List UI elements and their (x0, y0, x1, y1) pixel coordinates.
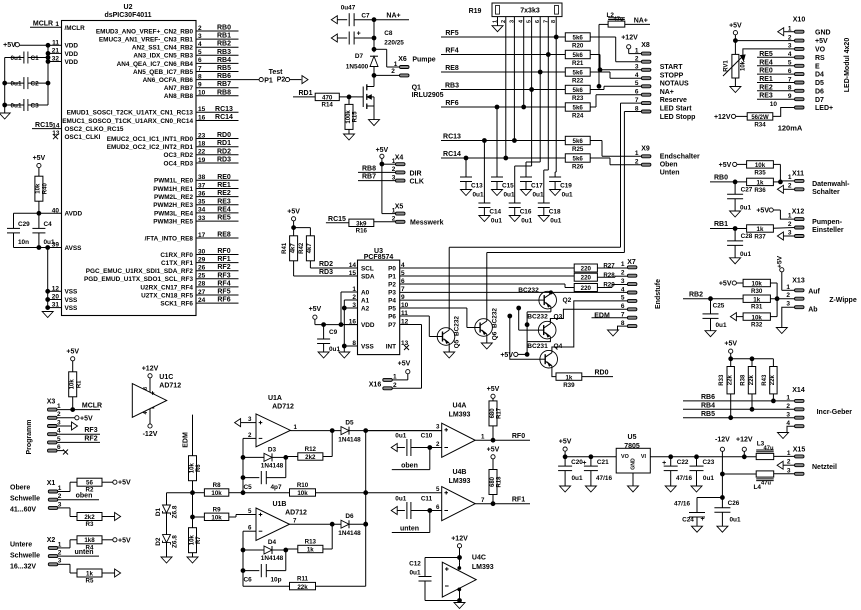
U2 pin 8 RB6 (143, 73, 239, 84)
svg-text:Auf: Auf (808, 289, 820, 296)
svg-text:0u1: 0u1 (10, 103, 21, 110)
resistor R37 1k (747, 225, 795, 241)
svg-text:PWM2H_RE3: PWM2H_RE3 (153, 202, 193, 209)
svg-text:Schwelle: Schwelle (10, 496, 40, 503)
svg-text:RB6: RB6 (701, 394, 715, 401)
svg-text:+: + (700, 516, 704, 523)
svg-text:26: 26 (198, 265, 206, 272)
resistor R30 10k (743, 279, 777, 298)
comparator U4B LM393 (436, 469, 475, 521)
capacitor C14 0u1 (478, 203, 502, 225)
resistor R26 5k6 (565, 154, 590, 171)
svg-text:RB7: RB7 (362, 174, 376, 181)
svg-text:Schwelle: Schwelle (10, 553, 40, 560)
wire R14 to gate (339, 95, 357, 99)
svg-text:RC14: RC14 (443, 151, 461, 158)
X7 pin 1 (621, 261, 637, 269)
svg-text:1: 1 (788, 212, 792, 219)
resistor R43 22k (762, 367, 777, 394)
supply +5V X4 (376, 147, 389, 166)
X11 pin2 arrow (777, 185, 794, 193)
svg-text:1: 1 (57, 403, 61, 410)
U2 pin 30 RF0 (160, 248, 238, 259)
capacitor C23 0u1 (690, 457, 715, 492)
svg-text:RE2: RE2 (759, 84, 773, 91)
resistor R3 2k2 (77, 513, 102, 529)
X7 pin8 ground (608, 326, 628, 336)
svg-text:Z-Wippe: Z-Wippe (829, 297, 857, 304)
svg-text:Pumpe: Pumpe (412, 57, 435, 64)
svg-text:VSS: VSS (65, 305, 79, 312)
wire VDD rail vertical (46, 43, 50, 105)
svg-text:470: 470 (322, 95, 333, 102)
svg-text:Q3: Q3 (554, 314, 563, 321)
X1 pin 2 oben (48, 493, 99, 502)
svg-text:P5: P5 (388, 305, 396, 312)
svg-text:unten: unten (400, 526, 419, 533)
svg-text:3: 3 (58, 558, 62, 565)
X3 pin 6 (48, 444, 69, 455)
svg-text:R18: R18 (497, 476, 503, 488)
resistor R40 10k (35, 176, 49, 201)
ground C1-C3 (0, 113, 10, 119)
svg-text:2: 2 (248, 432, 252, 439)
svg-text:AN6_OCFA_RB6: AN6_OCFA_RB6 (143, 77, 194, 84)
svg-text:2: 2 (786, 292, 790, 299)
svg-text:Q4: Q4 (554, 343, 563, 350)
svg-text:10k: 10k (741, 60, 747, 71)
svg-text:+5V: +5V (559, 439, 572, 446)
connector X5 Messwerk (374, 204, 444, 227)
svg-text:R38: R38 (740, 374, 746, 386)
X2 pin 1 (48, 540, 77, 550)
wire VSS rail (46, 248, 50, 310)
net stub oben (392, 448, 430, 470)
svg-text:STOPP: STOPP (660, 72, 684, 79)
svg-text:VSS: VSS (65, 289, 79, 296)
svg-text:EDM: EDM (594, 313, 610, 320)
X3 pin 1 (48, 403, 103, 412)
X10 pin2 wire (735, 40, 794, 42)
svg-text:+: + (582, 460, 586, 467)
X10 pin10 wire (770, 101, 795, 116)
svg-text:C23: C23 (703, 459, 715, 466)
net row RC13 (441, 134, 565, 143)
svg-text:2: 2 (786, 403, 790, 410)
svg-text:+5V: +5V (118, 480, 131, 487)
ground C9 (318, 352, 329, 358)
svg-text:SCK1_RF6: SCK1_RF6 (160, 301, 193, 308)
supply +5V R30 (719, 280, 743, 287)
svg-text:R3: R3 (86, 521, 94, 528)
svg-text:P4: P4 (388, 297, 396, 304)
supply +5V X16 (398, 361, 411, 380)
svg-text:X7: X7 (627, 259, 636, 266)
svg-text:0u1: 0u1 (715, 322, 726, 329)
svg-text:220: 220 (581, 285, 592, 292)
X10 pin 7 (788, 76, 824, 87)
svg-text:MCLR: MCLR (82, 403, 102, 410)
U2 pin 12 VSS (48, 285, 78, 295)
U2 pin 19 RD3 (164, 157, 239, 168)
resistor R36 1k (747, 178, 774, 194)
svg-text:5k6: 5k6 (573, 70, 584, 77)
svg-text:R28: R28 (603, 272, 615, 279)
svg-text:C11: C11 (421, 495, 433, 502)
diode D4 1N4148 (243, 539, 288, 562)
svg-text:VO: VO (621, 454, 629, 460)
inductor L3 47u (756, 440, 794, 459)
svg-text:R20: R20 (572, 43, 584, 50)
net label RD2 (319, 261, 333, 268)
svg-text:PCF8574: PCF8574 (364, 254, 394, 261)
svg-text:P7: P7 (388, 322, 396, 329)
svg-text:RD3: RD3 (217, 157, 231, 164)
svg-text:1: 1 (58, 485, 62, 492)
net label RD1 (293, 90, 315, 97)
resistor R35 10k (747, 161, 774, 177)
svg-text:RE8: RE8 (445, 65, 459, 72)
svg-text:R40: R40 (43, 183, 49, 195)
ground Q6 emitter (481, 336, 492, 349)
svg-text:PWM1H_RE1: PWM1H_RE1 (153, 186, 193, 193)
svg-text:10k: 10k (36, 183, 42, 194)
svg-text:Z6.8: Z6.8 (172, 505, 179, 518)
svg-text:D2: D2 (155, 537, 162, 546)
wire R2 to +5V (102, 480, 131, 487)
svg-text:C1RX_RF0: C1RX_RF0 (160, 252, 193, 259)
resistor R22 5k6 (565, 68, 590, 85)
svg-text:AN8_RB8: AN8_RB8 (164, 93, 194, 100)
svg-text:RE1: RE1 (759, 76, 773, 83)
svg-text:Oben: Oben (660, 162, 678, 169)
wire jog pin7 to C18 (544, 170, 549, 203)
svg-text:D3: D3 (268, 447, 277, 454)
svg-text:24: 24 (198, 297, 206, 304)
capacitor C3 (5, 99, 48, 111)
svg-text:X1: X1 (47, 480, 56, 487)
svg-text:R42: R42 (299, 242, 305, 254)
svg-text:+12V: +12V (142, 366, 159, 373)
svg-text:AD712: AD712 (272, 404, 294, 411)
svg-text:D5: D5 (345, 420, 354, 427)
capacitor C8 220/25 (331, 30, 404, 46)
wire U1B output (290, 518, 342, 527)
svg-text:RF4: RF4 (445, 48, 458, 55)
wire Q3 collector to X7 pin6 (550, 309, 627, 321)
svg-text:RF3: RF3 (84, 427, 97, 434)
svg-text:C28: C28 (741, 233, 753, 240)
wire jog pin6 to C17 (526, 162, 540, 177)
svg-text:R14: R14 (322, 102, 334, 109)
svg-text:Datenwahl-: Datenwahl- (812, 181, 850, 188)
svg-text:0u1: 0u1 (395, 495, 406, 502)
svg-text:R25: R25 (572, 146, 584, 153)
svg-text:10: 10 (198, 90, 206, 97)
U2 pin 28 RF4 (140, 280, 238, 291)
X10 pin 8 (788, 85, 824, 96)
X10 pin 2 (788, 34, 828, 45)
svg-text:VO: VO (815, 47, 826, 54)
U2 pin 24 RF6 (160, 297, 238, 308)
U2 pin 39 AVSS (15, 242, 83, 252)
wire X8 pin7 LED Start (621, 103, 642, 247)
resistor R12 2k2 (286, 431, 332, 461)
svg-text:Pumpen-: Pumpen- (812, 219, 843, 226)
svg-text:7: 7 (293, 518, 297, 525)
svg-text:10n: 10n (18, 239, 29, 246)
svg-text:BC232: BC232 (492, 308, 499, 328)
net row RC14 (441, 151, 565, 160)
svg-text:U1C: U1C (159, 374, 173, 381)
svg-text:10k: 10k (755, 162, 766, 169)
svg-text:0u1: 0u1 (10, 81, 21, 88)
svg-text:+5V: +5V (376, 147, 389, 154)
resistor R9 10k (193, 506, 257, 521)
resistor R8 10k (193, 482, 229, 497)
net label RB0 (710, 174, 747, 183)
wire jog pin8 to C19 (555, 172, 556, 177)
supply +5V U5 (559, 439, 572, 459)
X8 pin 6 (635, 89, 687, 105)
U2 pin 22 RD2 (164, 148, 239, 159)
R19 network columns (506, 17, 556, 172)
svg-text:R16: R16 (356, 228, 368, 235)
svg-text:VSS: VSS (65, 297, 79, 304)
svg-text:0u1: 0u1 (409, 570, 420, 577)
X10 pin1 arrow (778, 28, 795, 36)
svg-text:1: 1 (55, 21, 59, 28)
svg-text:-12V: -12V (143, 431, 158, 438)
supply +12V R34 (714, 114, 747, 121)
svg-text:22k: 22k (728, 375, 734, 386)
wire R41 to SDA (294, 261, 358, 276)
U3 address pins wiring (341, 292, 358, 325)
U2 pin 15 RC13 (67, 106, 239, 117)
svg-text:22k: 22k (770, 375, 776, 386)
X8 pin 4 (635, 72, 689, 88)
svg-text:5k6: 5k6 (573, 35, 584, 42)
capacitor C5 4p7 (243, 457, 286, 491)
svg-text:+12V: +12V (736, 437, 753, 444)
net row RF6 (441, 100, 565, 109)
svg-text:GND: GND (815, 29, 831, 36)
svg-text:RB8: RB8 (362, 165, 376, 172)
svg-text:6: 6 (248, 525, 252, 532)
svg-text:OSC1_CLKI: OSC1_CLKI (65, 134, 101, 141)
ground VSS (42, 312, 53, 318)
wire node to R7 (191, 493, 195, 528)
wire +12V rail (650, 455, 756, 459)
svg-text:+5V: +5V (118, 537, 131, 544)
X7 pin 2 (621, 270, 637, 278)
svg-text:PWM1L_RE0: PWM1L_RE0 (154, 178, 194, 185)
svg-text:1k: 1k (565, 374, 572, 381)
svg-text:10k: 10k (297, 490, 308, 497)
svg-text:C13: C13 (471, 183, 483, 190)
net row RB3 (441, 83, 565, 92)
wire to U4B noninverting (366, 492, 442, 494)
U2 pin 20 VSS (48, 294, 78, 304)
svg-text:R34: R34 (754, 121, 766, 128)
X14 pin4 ground (778, 420, 805, 439)
transistor Q5 BC232 (437, 316, 460, 349)
svg-text:1: 1 (786, 284, 790, 291)
DIR CLK labels (410, 170, 424, 185)
wire U4A output RF0 (475, 426, 530, 442)
svg-text:1: 1 (787, 450, 791, 457)
svg-text:+5V: +5V (729, 23, 742, 30)
svg-text:22k: 22k (749, 375, 755, 386)
capacitor C18 0u1 (538, 203, 562, 225)
svg-text:33: 33 (198, 215, 206, 222)
potentiometer RV1 10k (723, 49, 795, 78)
IC U5 7805 (616, 434, 650, 492)
svg-text:C7: C7 (361, 13, 370, 20)
svg-text:START: START (660, 64, 684, 71)
svg-text:+5V: +5V (66, 349, 79, 356)
svg-text:OSC2_CLKO_RC15: OSC2_CLKO_RC15 (65, 126, 124, 133)
svg-text:RC14: RC14 (215, 114, 233, 121)
resistor R25 5k6 (565, 136, 590, 153)
net label NA+ (374, 13, 409, 20)
svg-text:10: 10 (770, 101, 778, 108)
wire NA+ to D7 (372, 20, 376, 53)
svg-text:RE5: RE5 (759, 51, 773, 58)
svg-text:10k: 10k (211, 490, 222, 497)
port arrow R3 (102, 513, 121, 521)
svg-text:VI: VI (641, 454, 647, 460)
svg-text:+5V: +5V (487, 447, 500, 454)
svg-text:R8: R8 (213, 482, 221, 489)
capacitor C26 0u1 (714, 498, 741, 533)
svg-text:A1: A1 (361, 297, 370, 304)
svg-text:5k6: 5k6 (573, 156, 584, 163)
svg-text:RB3: RB3 (445, 83, 459, 90)
svg-text:C9: C9 (329, 329, 338, 336)
svg-text:C19: C19 (560, 183, 572, 190)
wire X8 pin8 LED Stopp (624, 112, 641, 253)
svg-text:RF1: RF1 (512, 497, 525, 504)
connector X12 (788, 209, 804, 238)
svg-text:C3: C3 (31, 103, 40, 110)
wire AVDD node (14, 213, 39, 228)
svg-text:R17: R17 (497, 407, 503, 419)
svg-text:RE4: RE4 (759, 59, 773, 66)
svg-text:R21: R21 (572, 60, 584, 67)
svg-text:1: 1 (58, 541, 62, 548)
svg-text:RD2: RD2 (319, 261, 333, 268)
svg-text:U4B: U4B (452, 469, 466, 476)
supply +5V R35 (719, 162, 747, 169)
connector X16 (369, 373, 422, 390)
supply +5V R17 (487, 386, 500, 401)
svg-text:C1: C1 (31, 55, 40, 62)
svg-text:RB6: RB6 (217, 73, 231, 80)
svg-text:VSS: VSS (361, 343, 375, 350)
LED Start horizontal (449, 246, 620, 248)
svg-text:P2: P2 (277, 76, 286, 83)
ground RV1 (730, 78, 741, 93)
svg-text:Unten: Unten (660, 170, 680, 177)
svg-text:X12: X12 (792, 209, 805, 216)
svg-text:C1TX_RF1: C1TX_RF1 (161, 260, 193, 267)
svg-text:VDD: VDD (65, 59, 79, 66)
svg-text:RF5: RF5 (217, 289, 230, 296)
svg-text:Incr-Geber: Incr-Geber (817, 409, 853, 416)
supply +5V for VDD (3, 42, 48, 49)
svg-text:1: 1 (481, 434, 485, 441)
net row RF4 (441, 48, 565, 57)
svg-text:17: 17 (198, 232, 206, 239)
U2 pin 17 RE8 (145, 232, 239, 243)
svg-text:X5: X5 (395, 204, 404, 211)
wire P2 row (400, 284, 575, 288)
resistor R17 680 (489, 401, 503, 426)
svg-text:VDD: VDD (65, 51, 79, 58)
svg-text:25: 25 (198, 273, 206, 280)
capacitor C24 47/16 (674, 501, 705, 533)
supply +12V (736, 437, 753, 457)
Endstufe label (655, 279, 662, 309)
net label RE1 (757, 76, 795, 83)
IC U3 PCF8574 body (358, 248, 400, 355)
X7 pin 5 (621, 295, 637, 303)
svg-text:AN3_IDX_CN5_RB3: AN3_IDX_CN5_RB3 (133, 53, 193, 60)
svg-text:5k6: 5k6 (573, 138, 584, 145)
svg-text:RC15: RC15 (328, 216, 346, 223)
svg-text:EMUD3_ANO_VREF+_CN2_RB0: EMUD3_ANO_VREF+_CN2_RB0 (96, 28, 194, 35)
resistor network R19 7x3k3 (469, 3, 562, 17)
junction C14 on RC13 row (483, 139, 487, 203)
svg-text:4k7: 4k7 (307, 243, 313, 254)
svg-text:RD1: RD1 (298, 90, 312, 97)
wire R21 to X8 pin3 (590, 55, 641, 72)
capacitor C1 (5, 52, 48, 64)
svg-text:2: 2 (391, 68, 395, 75)
wire P0 row (400, 267, 575, 269)
wire U4B output RF1 (475, 495, 530, 506)
svg-text:Q6: Q6 (492, 331, 499, 340)
comparator U4A LM393 (436, 403, 475, 458)
supply +12V X8 (621, 35, 638, 54)
X2 pin 3 (48, 558, 77, 573)
svg-text:EDM: EDM (183, 432, 190, 448)
svg-text:10k: 10k (211, 515, 222, 522)
svg-text:7x3k3: 7x3k3 (520, 8, 540, 15)
capacitor C25 0u1 (703, 299, 727, 337)
connector X15 (787, 446, 805, 475)
supply +5V X13 (777, 255, 795, 290)
svg-text:U1A: U1A (268, 395, 282, 402)
svg-text:Q1: Q1 (412, 85, 421, 92)
wire R25 to X9 pin1 (590, 141, 641, 157)
resistor R24 5k6 (565, 103, 590, 120)
inductor L2 47u (607, 12, 625, 27)
svg-text:7: 7 (481, 497, 485, 504)
svg-text:C15: C15 (502, 183, 514, 190)
resistor R42 4k7 (299, 236, 315, 261)
supply +5V for AVDD (33, 155, 46, 176)
wire P5b to Q3 base (517, 306, 539, 330)
svg-text:LED Stopp: LED Stopp (660, 114, 696, 121)
IC U2 dsPIC30F4011 body (62, 4, 197, 316)
svg-text:EMUC2_OC1_IC1_INT1_RD0: EMUC2_OC1_IC1_INT1_RD0 (107, 136, 194, 143)
svg-text:RF6: RF6 (217, 297, 230, 304)
svg-text:P3: P3 (388, 289, 396, 296)
svg-text:R19: R19 (469, 8, 482, 15)
svg-text:RB3: RB3 (217, 49, 231, 56)
